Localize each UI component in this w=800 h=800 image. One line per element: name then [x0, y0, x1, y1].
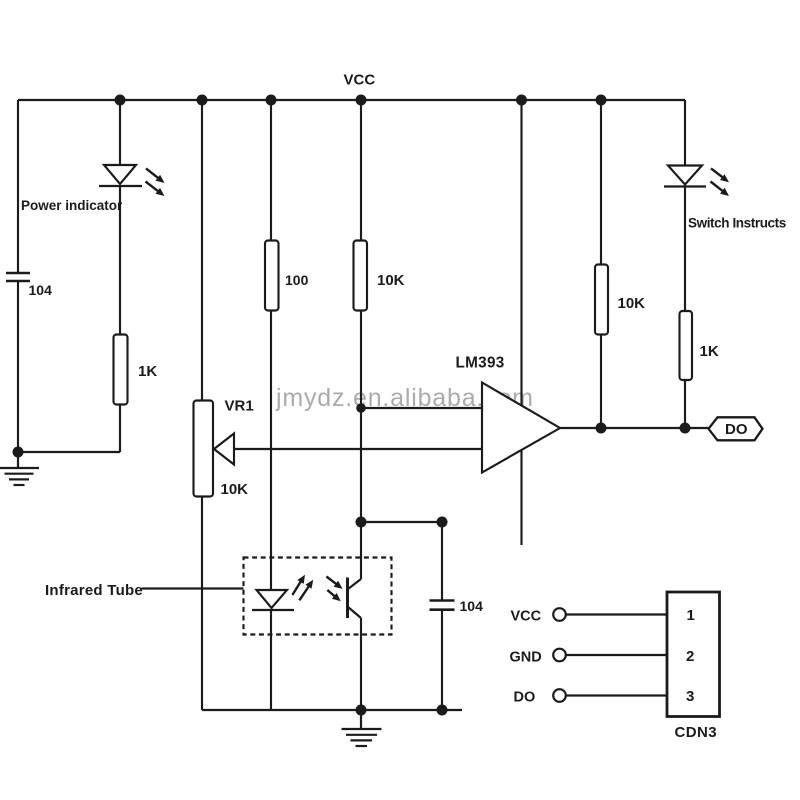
wire minus input from VR1 wiper	[234, 448, 482, 450]
resistor R5 1K	[680, 311, 693, 380]
node ground left	[13, 447, 24, 458]
svg-text:10K: 10K	[618, 295, 646, 312]
connector CDN3 body	[667, 592, 720, 717]
wire left column lower (C1 to ground node)	[17, 281, 19, 452]
LED D1 power indicator	[99, 165, 142, 186]
wire LED1 anode column	[119, 100, 121, 166]
phototransistor Q1 base bar	[346, 578, 349, 619]
resistor R4 10K	[595, 265, 608, 335]
DO output tag	[709, 417, 763, 440]
wire R4 bottom to output row	[600, 334, 602, 428]
wire R3 bottom through nodes to Q1 collector	[360, 310, 362, 579]
wire connector pin 1	[566, 613, 667, 615]
node output R4	[596, 423, 607, 434]
LED D1 light arrow 2	[146, 182, 159, 192]
svg-text:2: 2	[686, 648, 694, 665]
wire ground row left	[18, 451, 120, 453]
svg-text:GND: GND	[510, 650, 542, 666]
svg-text:1: 1	[687, 607, 695, 624]
node rail-LED1	[115, 95, 126, 106]
svg-text:1K: 1K	[138, 363, 157, 380]
node C2 bottom	[437, 705, 448, 716]
wire R4 top column	[600, 100, 602, 265]
phototransistor Q1 emitter	[348, 607, 361, 618]
wire node row C2 top	[361, 521, 442, 523]
wire connector pin 2	[566, 654, 667, 656]
op-amp U1 LM393	[482, 383, 560, 473]
dashed box infrared tube	[244, 558, 392, 635]
svg-text:CDN3: CDN3	[675, 724, 717, 741]
LED D2 light arrow 2	[711, 182, 724, 192]
resistor R3 10K	[354, 241, 368, 311]
wire right column to LED2	[684, 100, 686, 166]
wire VCC top rail	[18, 99, 685, 101]
svg-text:LM393: LM393	[456, 355, 505, 372]
wire R1 bottom to ground row	[119, 404, 121, 452]
phototransistor Q1 collector	[348, 579, 361, 589]
svg-text:VCC: VCC	[511, 609, 542, 625]
wire Q1 emitter to ground node	[360, 618, 362, 710]
wire C2 column upper	[441, 522, 443, 600]
svg-text:10K: 10K	[377, 272, 405, 289]
connector pin circle DO	[553, 689, 566, 702]
svg-text:DO: DO	[725, 421, 748, 438]
wire bottom rail	[202, 709, 462, 711]
capacitor C1 104 plates	[6, 273, 30, 281]
wire R2 top column	[270, 100, 272, 241]
wire C2 column lower	[441, 610, 443, 710]
wire VR1 top column	[201, 100, 203, 401]
connector pin circle VCC	[553, 608, 566, 621]
wire R3 top column	[360, 100, 362, 241]
LED D2 switch indicator	[664, 166, 706, 187]
capacitor C2 104 plates	[430, 601, 455, 610]
node rail-VR1	[197, 95, 208, 106]
node bottom ground	[356, 705, 367, 716]
wire infrared tube leader line	[142, 587, 244, 589]
wire R5 bottom to output row	[684, 380, 686, 428]
phototransistor Q1 arrow 2	[327, 590, 335, 597]
wire U1 power pins vertical	[520, 100, 522, 545]
connector pin circle GND	[553, 649, 566, 662]
IR LED D3 light arrow 1	[292, 581, 301, 595]
resistor R1 1K	[114, 335, 128, 405]
wire left column upper (VCC to C1)	[17, 100, 19, 273]
resistor R2 100	[265, 241, 279, 311]
svg-text:3: 3	[686, 688, 694, 705]
node C2 top	[437, 517, 448, 528]
phototransistor Q1 arrow 1	[326, 577, 337, 585]
wire LED2 cathode to R5	[684, 186, 686, 311]
svg-text:Switch Instructs: Switch Instructs	[688, 216, 786, 231]
node collector row left	[356, 517, 367, 528]
node rail-R4	[596, 95, 607, 106]
node plus input	[356, 403, 366, 413]
svg-text:10K: 10K	[221, 481, 249, 498]
svg-text:Power indicator: Power indicator	[21, 198, 123, 213]
LED D2 light arrow 1	[711, 168, 724, 178]
svg-text:104: 104	[29, 282, 53, 298]
node rail-U1	[516, 95, 527, 106]
svg-text:104: 104	[460, 598, 484, 614]
potentiometer VR1 body	[194, 401, 214, 497]
wire LED1 cathode to R1	[119, 186, 121, 335]
ground GND2	[342, 710, 382, 746]
node output R5	[680, 423, 691, 434]
IR LED D3	[252, 590, 294, 610]
svg-text:VCC: VCC	[344, 72, 376, 89]
wire connector pin 3	[566, 694, 667, 696]
svg-text:1K: 1K	[700, 343, 719, 360]
LED D1 light arrow 1	[146, 168, 159, 178]
wire IR LED cathode to bottom rail	[270, 610, 272, 710]
wire VR1 bottom column	[201, 496, 203, 710]
IR LED D3 light arrow 2	[299, 586, 309, 601]
svg-text:DO: DO	[514, 690, 536, 706]
svg-text:VR1: VR1	[225, 398, 254, 415]
wire U1 output row	[560, 427, 709, 429]
ground GND1	[0, 452, 39, 485]
svg-text:100: 100	[285, 272, 309, 288]
svg-text:Infrared Tube: Infrared Tube	[45, 582, 143, 599]
potentiometer VR1 wiper arrow	[214, 434, 234, 465]
node rail-R3	[356, 95, 367, 106]
wire plus input	[361, 407, 482, 409]
node rail-R2	[266, 95, 277, 106]
wire R2 bottom to IR LED	[270, 310, 272, 590]
